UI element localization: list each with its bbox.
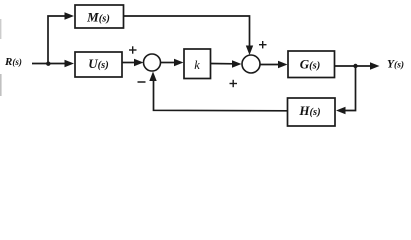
wire S2 to G(s) — [260, 61, 288, 68]
junction dot at R branch — [46, 62, 50, 66]
plus sign at S1 input — [129, 46, 137, 53]
scan smudge left edge upper — [0, 19, 1, 39]
wire branch up to M(s) — [48, 12, 74, 63]
block H(s) — [288, 98, 336, 126]
block G(s) — [288, 51, 335, 78]
wire U(s) to summing junction S1 — [122, 59, 144, 66]
svg-text:k: k — [194, 58, 200, 72]
summing junction S2 — [242, 55, 260, 73]
svg-text:R(s): R(s) — [4, 56, 22, 68]
plus sign at S2 input from k — [230, 80, 238, 87]
wire G(s) to Y(s) — [335, 62, 380, 69]
wire branch down to H(s) — [336, 66, 356, 114]
wire S1 to k — [161, 59, 184, 66]
wire k to S2 — [211, 60, 242, 67]
block U(s) — [75, 52, 122, 77]
scan smudge left edge lower — [0, 74, 2, 96]
wire M(s) to summing junction S2 — [124, 16, 254, 55]
summing junction S1 — [144, 54, 161, 71]
block M(s) — [75, 5, 124, 28]
wire H(s) to S1 feedback — [149, 72, 287, 111]
block k — [184, 49, 211, 79]
junction dot at Y branch — [353, 64, 357, 68]
wire R(s) to U(s) — [32, 60, 74, 67]
svg-text:Y(s): Y(s) — [387, 59, 404, 71]
minus sign at S1 feedback input — [138, 81, 146, 83]
plus sign at S2 input from M — [259, 41, 267, 48]
